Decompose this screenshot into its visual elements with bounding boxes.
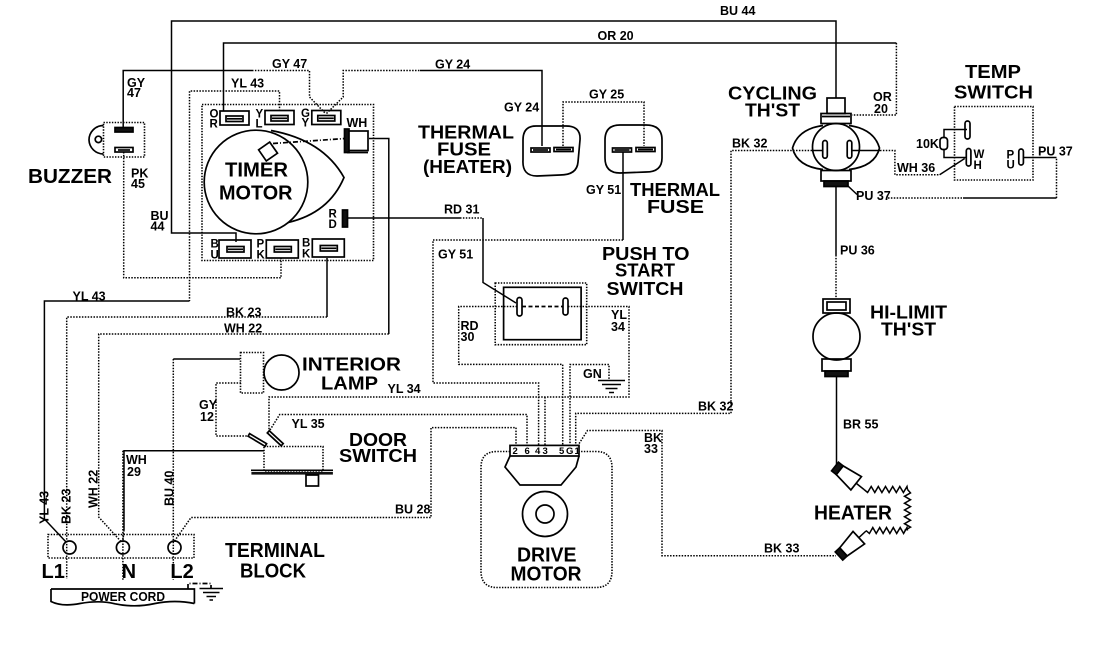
svg-text:BU 40: BU 40	[163, 471, 177, 506]
svg-text:G: G	[566, 446, 573, 457]
resistor wiring	[944, 130, 967, 138]
svg-text:PU 37: PU 37	[856, 189, 891, 203]
svg-text:FUSE: FUSE	[647, 197, 704, 217]
cycling thermostat left wing	[793, 126, 824, 170]
temp switch box	[955, 107, 1034, 181]
cycling thermostat pins	[823, 141, 828, 159]
svg-text:6: 6	[525, 446, 530, 457]
svg-text:12: 12	[200, 410, 214, 424]
svg-text:SWITCH: SWITCH	[954, 83, 1033, 103]
svg-text:BLOCK: BLOCK	[240, 561, 307, 583]
svg-text:POWER CORD: POWER CORD	[81, 590, 165, 604]
svg-text:YL 43: YL 43	[231, 77, 264, 91]
timer connector OR	[220, 111, 249, 125]
thermal fuse terminals	[613, 148, 656, 153]
svg-text:U: U	[1007, 160, 1015, 172]
timer connector YL	[265, 111, 294, 125]
svg-text:WH 22: WH 22	[224, 322, 262, 336]
wire GY24 (timer GY connector to thermal fuse heater)	[327, 71, 543, 147]
svg-text:YL 34: YL 34	[388, 382, 421, 396]
svg-text:GY 51: GY 51	[438, 248, 473, 262]
svg-text:OR 20: OR 20	[598, 29, 634, 43]
svg-text:30: 30	[461, 330, 475, 344]
wire WH29 (terminal N to door switch)	[123, 451, 264, 541]
wire YL34 (push-to-start right pin to door switch and motor pin 3)	[269, 307, 629, 447]
svg-text:45: 45	[131, 177, 145, 191]
temp switch WH pin	[966, 149, 971, 167]
thermal fuse body	[605, 125, 662, 173]
svg-text:PU 37: PU 37	[1038, 145, 1073, 159]
hi-limit circle	[813, 313, 860, 360]
drive motor connector hexagon	[505, 456, 579, 485]
svg-text:GN: GN	[583, 367, 602, 381]
timer outer box	[202, 105, 374, 261]
wire BU40 (interior lamp to terminal L2)	[173, 359, 240, 580]
terminal block	[48, 535, 194, 559]
cycling thermostat bottom rect	[821, 171, 851, 182]
terminal L2 circle	[168, 541, 181, 554]
svg-text:LAMP: LAMP	[321, 374, 378, 394]
wire BU28 (terminal L2 to motor pin 2)	[175, 428, 517, 541]
wire GY51 (thermal fuse to motor pin 4)	[433, 152, 623, 446]
timer connector BK	[312, 239, 344, 257]
cycling thermostat top square	[827, 98, 845, 114]
svg-text:L: L	[256, 119, 263, 131]
door switch tab	[306, 475, 319, 486]
svg-text:4: 4	[535, 446, 541, 457]
svg-text:BR 55: BR 55	[843, 418, 878, 432]
svg-text:L2: L2	[170, 561, 193, 583]
drive motor connector rect	[510, 445, 579, 456]
drive motor pin numbers	[513, 446, 581, 457]
wire YL35 (door switch lever to motor pin 6)	[270, 415, 527, 447]
svg-text:H: H	[974, 160, 982, 172]
timer cam diamond	[259, 142, 278, 161]
svg-text:R: R	[210, 119, 219, 131]
svg-text:GY 24: GY 24	[435, 58, 470, 72]
svg-text:YL 43: YL 43	[73, 290, 106, 304]
door switch base plate	[251, 470, 333, 474]
wire PU37 (cycling to temp switch PU pin)	[848, 158, 1057, 199]
svg-text:START: START	[615, 261, 675, 281]
svg-text:WH 36: WH 36	[897, 161, 935, 175]
svg-text:GY 51: GY 51	[586, 183, 621, 197]
svg-text:2: 2	[513, 446, 518, 457]
thermal fuse (heater) body	[523, 126, 580, 176]
temp switch top pin	[965, 121, 970, 139]
hi-limit bottom hatched bar	[825, 371, 848, 377]
wire BK33 (motor pin 1 to heater)	[578, 431, 837, 556]
thermal fuse (heater) terminals	[531, 148, 573, 153]
svg-text:10K: 10K	[916, 137, 939, 151]
cycling thermostat top rect	[821, 114, 851, 124]
heater bottom terminal cone	[833, 525, 872, 562]
svg-text:BUZZER: BUZZER	[28, 166, 113, 188]
cycling thermostat circle	[813, 124, 860, 171]
ground GN symbol	[598, 381, 625, 393]
svg-text:TH'ST: TH'ST	[881, 320, 936, 340]
svg-text:SWITCH: SWITCH	[339, 446, 417, 466]
wire YL43 (timer YL connector to terminal L1)	[44, 91, 279, 543]
timer connector GY	[312, 111, 341, 125]
push-to-start inner box	[504, 287, 581, 339]
svg-text:MOTOR: MOTOR	[219, 183, 293, 205]
hi-limit top hatched rect	[823, 299, 850, 313]
wire BK32 (cycling thermostat to motor)	[576, 151, 812, 447]
wire WH22 (timer WH connector to terminal N)	[99, 139, 389, 542]
wire PU36 (cycling to hi-limit)	[835, 187, 837, 299]
svg-text:D: D	[329, 219, 337, 231]
wire N below terminal (power cord stubs)	[122, 451, 124, 581]
svg-text:MOTOR: MOTOR	[511, 564, 583, 586]
wire cam to WH connector (dash-dot)	[273, 139, 345, 144]
svg-text:K: K	[302, 249, 311, 261]
wire BU44 (top run, timer BU to cycling thermostat)	[172, 21, 837, 242]
wire GN (motor pin G to ground)	[570, 365, 609, 447]
heater element zigzag	[864, 487, 911, 534]
wire RD30 (push-to-start to motor pin 5, dashed)	[459, 307, 563, 447]
svg-text:HEATER: HEATER	[814, 503, 893, 525]
cycling pin stub lines	[813, 150, 823, 152]
cycling thermostat right wing	[849, 126, 880, 170]
ground symbol at power cord	[200, 589, 224, 601]
svg-text:GY 25: GY 25	[589, 88, 624, 102]
svg-text:Y: Y	[302, 118, 310, 130]
wire GY47 (buzzer to timer GY connector)	[123, 71, 325, 129]
svg-text:BK 32: BK 32	[732, 137, 767, 151]
svg-text:34: 34	[611, 320, 625, 334]
svg-text:TH'ST: TH'ST	[745, 101, 800, 121]
push-to-start left pin	[517, 298, 522, 317]
svg-text:PU 36: PU 36	[840, 244, 875, 258]
wire GY25 (between thermal fuses)	[563, 102, 644, 146]
interior lamp bulb	[264, 355, 299, 390]
door switch lever 1	[248, 434, 267, 447]
svg-text:WH: WH	[347, 116, 368, 130]
wire OR20 (top dashed run)	[224, 43, 897, 115]
svg-text:5: 5	[559, 446, 565, 457]
timer connector WH	[345, 129, 369, 153]
svg-text:BK 23: BK 23	[60, 489, 74, 524]
svg-text:20: 20	[874, 102, 888, 116]
svg-text:GY 24: GY 24	[504, 101, 539, 115]
terminal L1 circle	[63, 541, 76, 554]
svg-text:BK 33: BK 33	[764, 542, 799, 556]
svg-text:BU 44: BU 44	[720, 4, 755, 18]
svg-text:BK 32: BK 32	[698, 400, 733, 414]
resistor 10K	[940, 138, 948, 150]
wire GY12 (interior lamp to door switch lever)	[216, 383, 249, 436]
timer motor circle	[204, 130, 308, 234]
push-to-start right pin	[563, 298, 568, 315]
interior lamp base	[241, 353, 264, 394]
svg-text:GY 47: GY 47	[272, 57, 307, 71]
buzzer	[89, 123, 145, 158]
svg-text:YL 35: YL 35	[292, 417, 325, 431]
svg-text:L1: L1	[42, 561, 65, 583]
wire RD31 (timer RD to push-to-start switch)	[348, 218, 516, 303]
svg-text:U: U	[211, 250, 219, 262]
svg-text:TERMINAL: TERMINAL	[225, 540, 325, 562]
svg-text:33: 33	[644, 442, 658, 456]
svg-text:WH 22: WH 22	[87, 470, 101, 508]
svg-text:(HEATER): (HEATER)	[423, 157, 512, 177]
svg-text:3: 3	[543, 446, 548, 457]
power cord ground connection	[188, 584, 211, 590]
wire WH36 (cycling to temp switch WH pin)	[880, 151, 965, 175]
timer belt/cam outline	[271, 131, 344, 223]
svg-text:BK 23: BK 23	[226, 306, 261, 320]
svg-text:29: 29	[127, 465, 141, 479]
temp switch PU pin	[1019, 149, 1024, 165]
timer connector PK	[266, 240, 298, 258]
timer connector BU	[219, 240, 251, 258]
terminal N circle	[116, 541, 129, 554]
svg-text:SWITCH: SWITCH	[607, 279, 684, 299]
timer connector RD	[343, 210, 348, 227]
svg-text:44: 44	[151, 220, 165, 234]
wire BR55 (hi-limit to heater)	[836, 377, 838, 466]
heater top terminal cone	[830, 460, 870, 496]
push-to-start contact dashes	[522, 306, 563, 308]
svg-text:TIMER: TIMER	[225, 160, 289, 182]
svg-text:INTERIOR: INTERIOR	[302, 355, 401, 375]
drive motor body	[481, 452, 612, 588]
hi-limit bottom rect	[822, 359, 851, 371]
door switch lever 2	[267, 431, 283, 446]
svg-text:RD 31: RD 31	[444, 203, 479, 217]
svg-text:1: 1	[575, 446, 581, 457]
svg-text:TEMP: TEMP	[965, 62, 1021, 82]
svg-text:BU 28: BU 28	[395, 503, 430, 517]
cycling thermostat bottom hatched bar	[824, 181, 848, 187]
wire PK45 (buzzer to timer PK connector)	[124, 152, 281, 278]
svg-text:47: 47	[127, 86, 141, 100]
svg-text:K: K	[257, 250, 266, 262]
power cord box	[51, 589, 194, 606]
push-to-start switch outer box	[495, 283, 587, 345]
svg-text:YL 43: YL 43	[38, 491, 52, 524]
drive motor pulley	[523, 492, 568, 537]
svg-text:N: N	[122, 561, 136, 583]
door switch body	[264, 447, 323, 472]
wire BK23 (timer BK connector to terminal L1)	[67, 258, 327, 579]
